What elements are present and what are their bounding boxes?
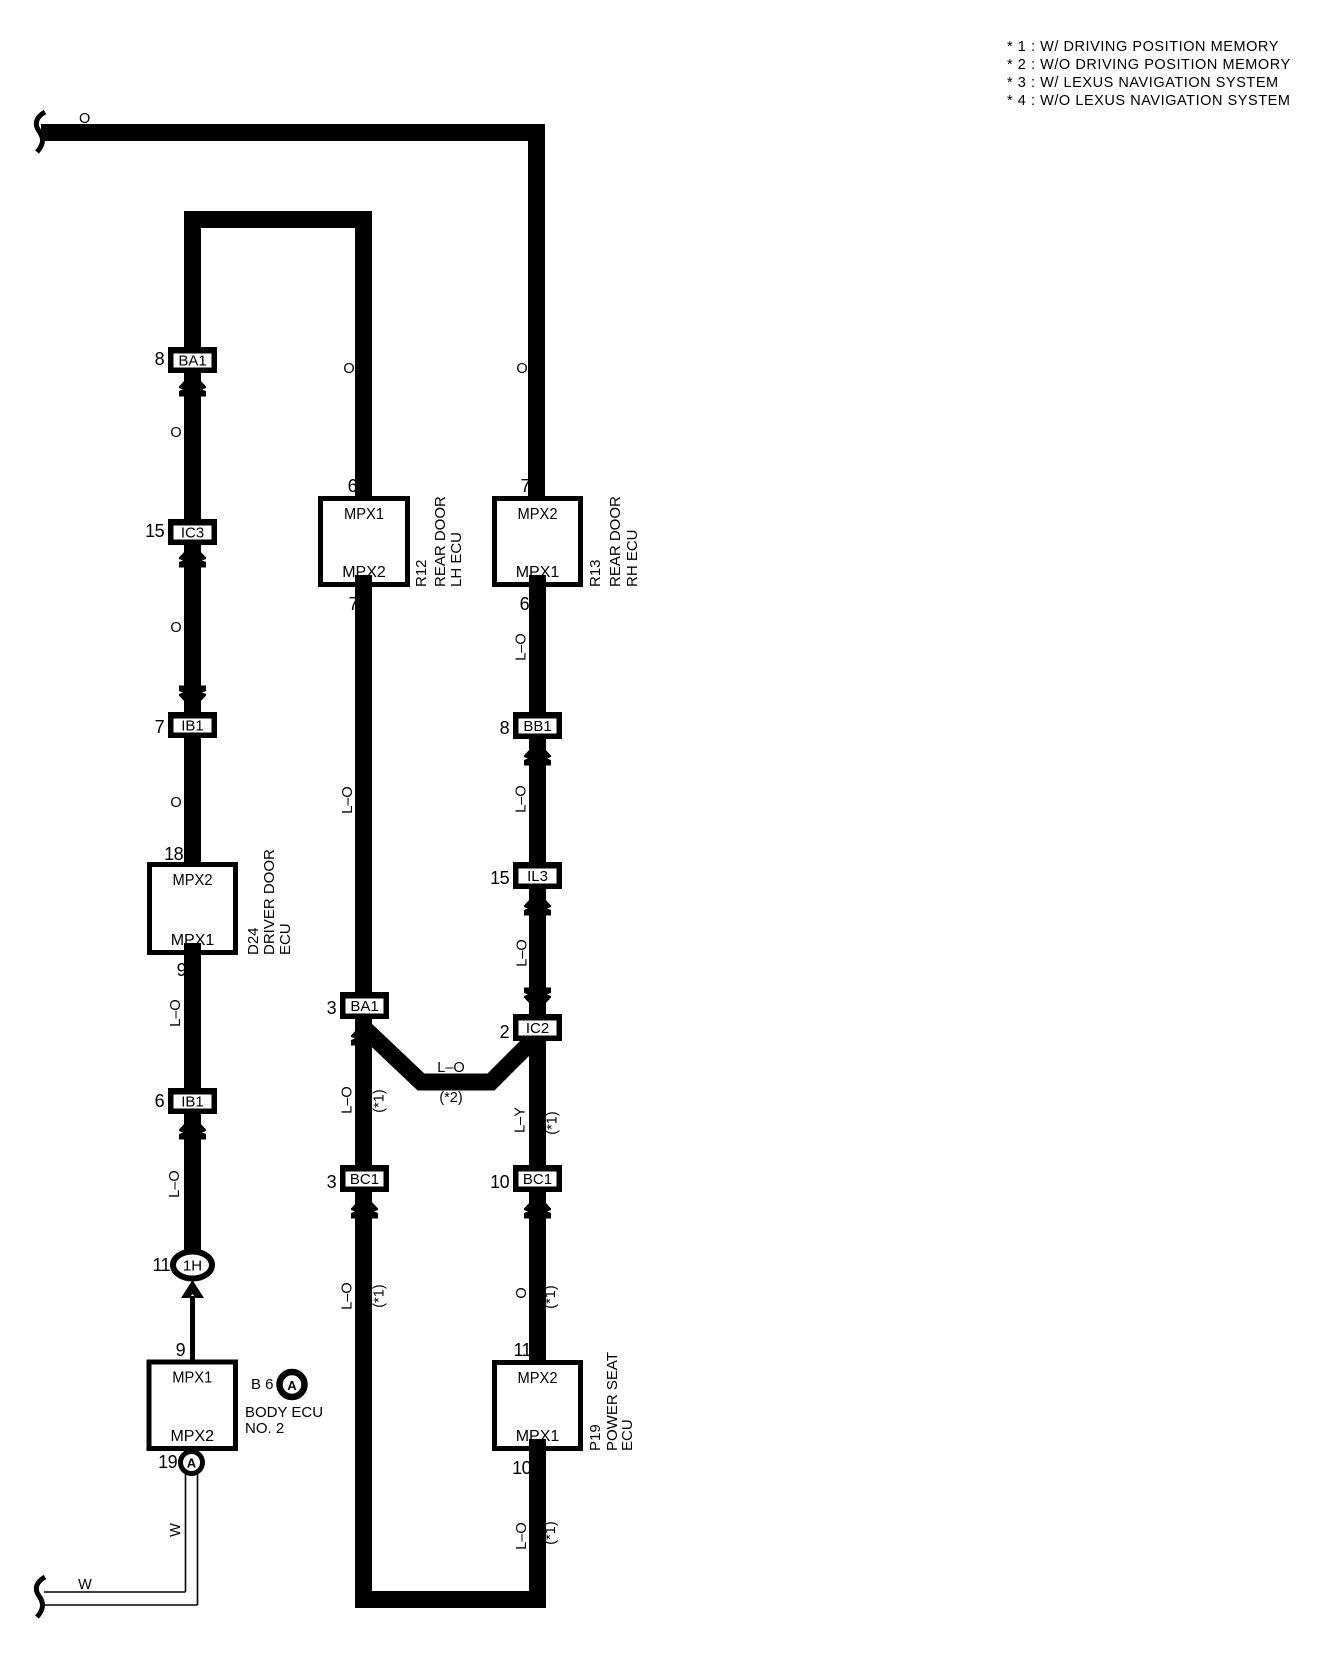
svg-text:6: 6 xyxy=(155,1091,165,1111)
svg-text:LH ECU: LH ECU xyxy=(448,532,465,587)
break symbol bottom left xyxy=(36,1577,45,1617)
svg-text:L–O: L–O xyxy=(340,1086,356,1113)
svg-text:IC2: IC2 xyxy=(526,1020,549,1037)
wire BB1 to IL3 xyxy=(529,739,546,866)
svg-text:W: W xyxy=(168,1523,184,1537)
svg-text:15: 15 xyxy=(145,521,164,541)
wire R13 to BB1 xyxy=(529,575,546,716)
wire D24 to IB1 pin6 xyxy=(184,943,201,1092)
svg-text:BB1: BB1 xyxy=(523,718,551,735)
svg-text:IB1: IB1 xyxy=(181,718,204,735)
circled A marker B6 xyxy=(280,1372,305,1397)
svg-text:L–O: L–O xyxy=(167,1170,183,1197)
svg-text:6: 6 xyxy=(348,476,358,496)
svg-text:A: A xyxy=(287,1378,297,1393)
svg-text:3: 3 xyxy=(327,1172,337,1192)
break symbol top left xyxy=(36,112,45,152)
wire IC2 to BC1 pin10 xyxy=(529,1039,546,1170)
wire IL3 to IC2 xyxy=(529,889,546,1016)
svg-text:BA1: BA1 xyxy=(350,998,378,1015)
svg-text:(*2): (*2) xyxy=(439,1090,462,1106)
svg-text:(*1): (*1) xyxy=(543,1285,559,1308)
svg-text:2: 2 xyxy=(500,1022,510,1042)
svg-text:BC1: BC1 xyxy=(350,1171,379,1188)
ECU box BODY ECU NO.2 xyxy=(149,1362,236,1449)
svg-text:RH ECU: RH ECU xyxy=(624,529,641,587)
svg-text:* 3 : W/ LEXUS NAVIGATION SYST: * 3 : W/ LEXUS NAVIGATION SYSTEM xyxy=(1007,75,1279,91)
connector BC1 (pin 3) xyxy=(340,1165,389,1192)
svg-text:* 2 : W/O DRIVING POSITION MEM: * 2 : W/O DRIVING POSITION MEMORY xyxy=(1007,57,1291,73)
svg-text:8: 8 xyxy=(500,718,510,738)
svg-text:18: 18 xyxy=(164,844,183,864)
svg-text:(*1): (*1) xyxy=(545,1111,561,1134)
svg-text:IL3: IL3 xyxy=(527,868,548,885)
svg-text:7: 7 xyxy=(155,717,165,737)
svg-text:3: 3 xyxy=(327,998,337,1018)
svg-text:L–O: L–O xyxy=(340,786,356,813)
connector BA1 (pin 8) xyxy=(168,347,217,373)
svg-text:P19: P19 xyxy=(587,1424,604,1451)
svg-text:6: 6 xyxy=(520,594,530,614)
wire middle vertical to R12 pin6 xyxy=(355,211,372,508)
hollow white wire W horizontal xyxy=(44,1592,198,1605)
arrow up into BC1 pin10 xyxy=(524,1194,551,1219)
svg-text:BC1: BC1 xyxy=(523,1171,552,1188)
wire bottom horizontal bus xyxy=(355,1591,546,1608)
arrow up into IB1 pin6 xyxy=(179,1115,206,1140)
svg-text:8: 8 xyxy=(155,349,165,369)
svg-text:O: O xyxy=(514,1287,530,1298)
arrow up into BC1 pin3 xyxy=(351,1194,378,1219)
svg-text:NO. 2: NO. 2 xyxy=(245,1420,284,1437)
svg-text:L–Y: L–Y xyxy=(513,1107,529,1133)
circled A marker pin 19 xyxy=(181,1452,203,1474)
ECU box R12 REAR DOOR LH ECU xyxy=(321,499,408,585)
ECU box R13 REAR DOOR RH ECU xyxy=(495,499,581,585)
svg-text:L–O: L–O xyxy=(514,1522,530,1549)
connector IC3 (pin 15) xyxy=(168,519,217,545)
svg-text:L–O: L–O xyxy=(514,633,530,660)
svg-text:MPX1: MPX1 xyxy=(344,506,384,523)
svg-text:A: A xyxy=(187,1456,197,1471)
wire IC3 to IB1 xyxy=(184,541,201,716)
svg-text:D24: D24 xyxy=(245,927,262,955)
wire IB1 to D24 xyxy=(184,738,201,874)
connector BA1 (pin 3) xyxy=(340,992,389,1019)
wire right vertical to R13 pin7 xyxy=(528,124,545,508)
connector IB1 (pin 6) xyxy=(168,1088,217,1114)
svg-text:MPX2: MPX2 xyxy=(518,506,558,523)
svg-text:L–O: L–O xyxy=(340,1282,356,1309)
svg-text:* 1 : W/ DRIVING POSITION MEMO: * 1 : W/ DRIVING POSITION MEMORY xyxy=(1007,39,1279,55)
svg-text:O: O xyxy=(79,111,90,127)
wire BC1 pin10 to P19 xyxy=(529,1192,546,1372)
svg-text:O: O xyxy=(170,620,181,636)
svg-text:W: W xyxy=(78,1577,92,1593)
svg-text:15: 15 xyxy=(490,868,509,888)
svg-text:10: 10 xyxy=(490,1172,509,1192)
svg-text:(*1): (*1) xyxy=(372,1284,388,1307)
ECU box P19 POWER SEAT ECU xyxy=(495,1363,581,1449)
svg-text:DRIVER DOOR: DRIVER DOOR xyxy=(261,849,278,955)
arrow up into BB1 xyxy=(524,741,551,766)
svg-text:19: 19 xyxy=(158,1452,177,1472)
svg-text:L–O: L–O xyxy=(515,939,531,966)
svg-text:11: 11 xyxy=(514,1340,532,1360)
connector IB1 (pin 7) xyxy=(168,712,217,738)
svg-text:9: 9 xyxy=(176,1340,186,1360)
svg-text:(*1): (*1) xyxy=(372,1089,388,1112)
svg-text:O: O xyxy=(170,795,181,811)
wire BA1 to IC3 xyxy=(184,371,201,523)
svg-text:L–O: L–O xyxy=(168,999,184,1026)
svg-text:7: 7 xyxy=(521,476,531,496)
wire second horizontal bus xyxy=(184,211,372,228)
svg-text:IC3: IC3 xyxy=(181,525,204,542)
arrow up into BA1 pin3 xyxy=(351,1021,378,1046)
svg-text:BA1: BA1 xyxy=(178,353,206,370)
svg-text:O: O xyxy=(516,361,527,377)
svg-text:* 4 : W/O LEXUS NAVIGATION SYS: * 4 : W/O LEXUS NAVIGATION SYSTEM xyxy=(1007,93,1291,109)
arrow up into 1H xyxy=(181,1280,204,1298)
wire BC1 pin3 down to bottom bus xyxy=(355,1192,372,1608)
svg-text:BODY ECU: BODY ECU xyxy=(245,1404,323,1421)
svg-text:MPX2: MPX2 xyxy=(173,872,213,889)
svg-text:O: O xyxy=(170,425,181,441)
arrow up into IL3 xyxy=(524,891,551,916)
svg-text:MPX2: MPX2 xyxy=(170,1428,214,1445)
svg-text:R13: R13 xyxy=(587,559,604,587)
svg-text:R12: R12 xyxy=(413,559,430,587)
hollow white wire W vertical xyxy=(186,1473,198,1605)
arrow down into IC2 xyxy=(524,988,551,1013)
ECU box D24 DRIVER DOOR ECU xyxy=(150,865,236,953)
connector IL3 (pin 15) xyxy=(513,862,562,889)
arrow up into IC3 xyxy=(179,543,206,568)
svg-text:11: 11 xyxy=(153,1255,171,1275)
svg-text:10: 10 xyxy=(512,1458,531,1478)
svg-text:O: O xyxy=(343,361,354,377)
svg-text:MPX1: MPX1 xyxy=(172,1370,212,1387)
wire R12 to BA1 pin3 xyxy=(355,575,372,996)
arrow down into IB1 xyxy=(179,686,206,711)
wire BA1 pin3 to BC1 pin3 xyxy=(355,1018,372,1170)
wire P19 down to bottom bus xyxy=(529,1439,546,1608)
svg-text:L–O: L–O xyxy=(437,1060,464,1076)
arrow up into BA1 xyxy=(179,372,206,397)
svg-text:IB1: IB1 xyxy=(181,1094,204,1111)
svg-text:MPX2: MPX2 xyxy=(518,1370,558,1387)
connector BB1 (pin 8) xyxy=(513,712,562,739)
wire top horizontal O bus xyxy=(41,124,545,141)
svg-text:L–O: L–O xyxy=(514,785,530,812)
wire thin wire 1H to Body ECU xyxy=(190,1296,195,1361)
svg-text:B 6: B 6 xyxy=(251,1376,274,1393)
wire IB1 pin6 to 1H xyxy=(184,1114,201,1256)
connector 1H (pin 11) xyxy=(173,1252,212,1279)
svg-text:REAR DOOR: REAR DOOR xyxy=(432,496,449,587)
wire link BA1 to IC2 (*2) xyxy=(364,1028,533,1082)
svg-text:ECU: ECU xyxy=(619,1419,636,1451)
svg-text:1H: 1H xyxy=(183,1258,202,1275)
wire left vertical to BA1 pin8 xyxy=(184,211,201,351)
connector IC2 (pin 2) xyxy=(513,1014,562,1041)
svg-text:(*1): (*1) xyxy=(543,1521,559,1544)
connector BC1 (pin 10) xyxy=(513,1165,562,1192)
svg-text:ECU: ECU xyxy=(277,923,294,955)
svg-text:REAR DOOR: REAR DOOR xyxy=(607,496,624,587)
